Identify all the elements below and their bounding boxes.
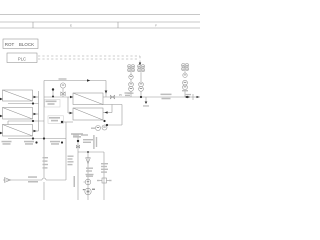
svg-text:PLC: PLC (18, 56, 26, 61)
svg-text:F: F (155, 24, 157, 28)
svg-text:ROT: ROT (5, 42, 15, 47)
svg-text:PI: PI (119, 93, 122, 97)
svg-text:BLOCK: BLOCK (19, 42, 34, 47)
svg-text:E: E (70, 24, 72, 28)
